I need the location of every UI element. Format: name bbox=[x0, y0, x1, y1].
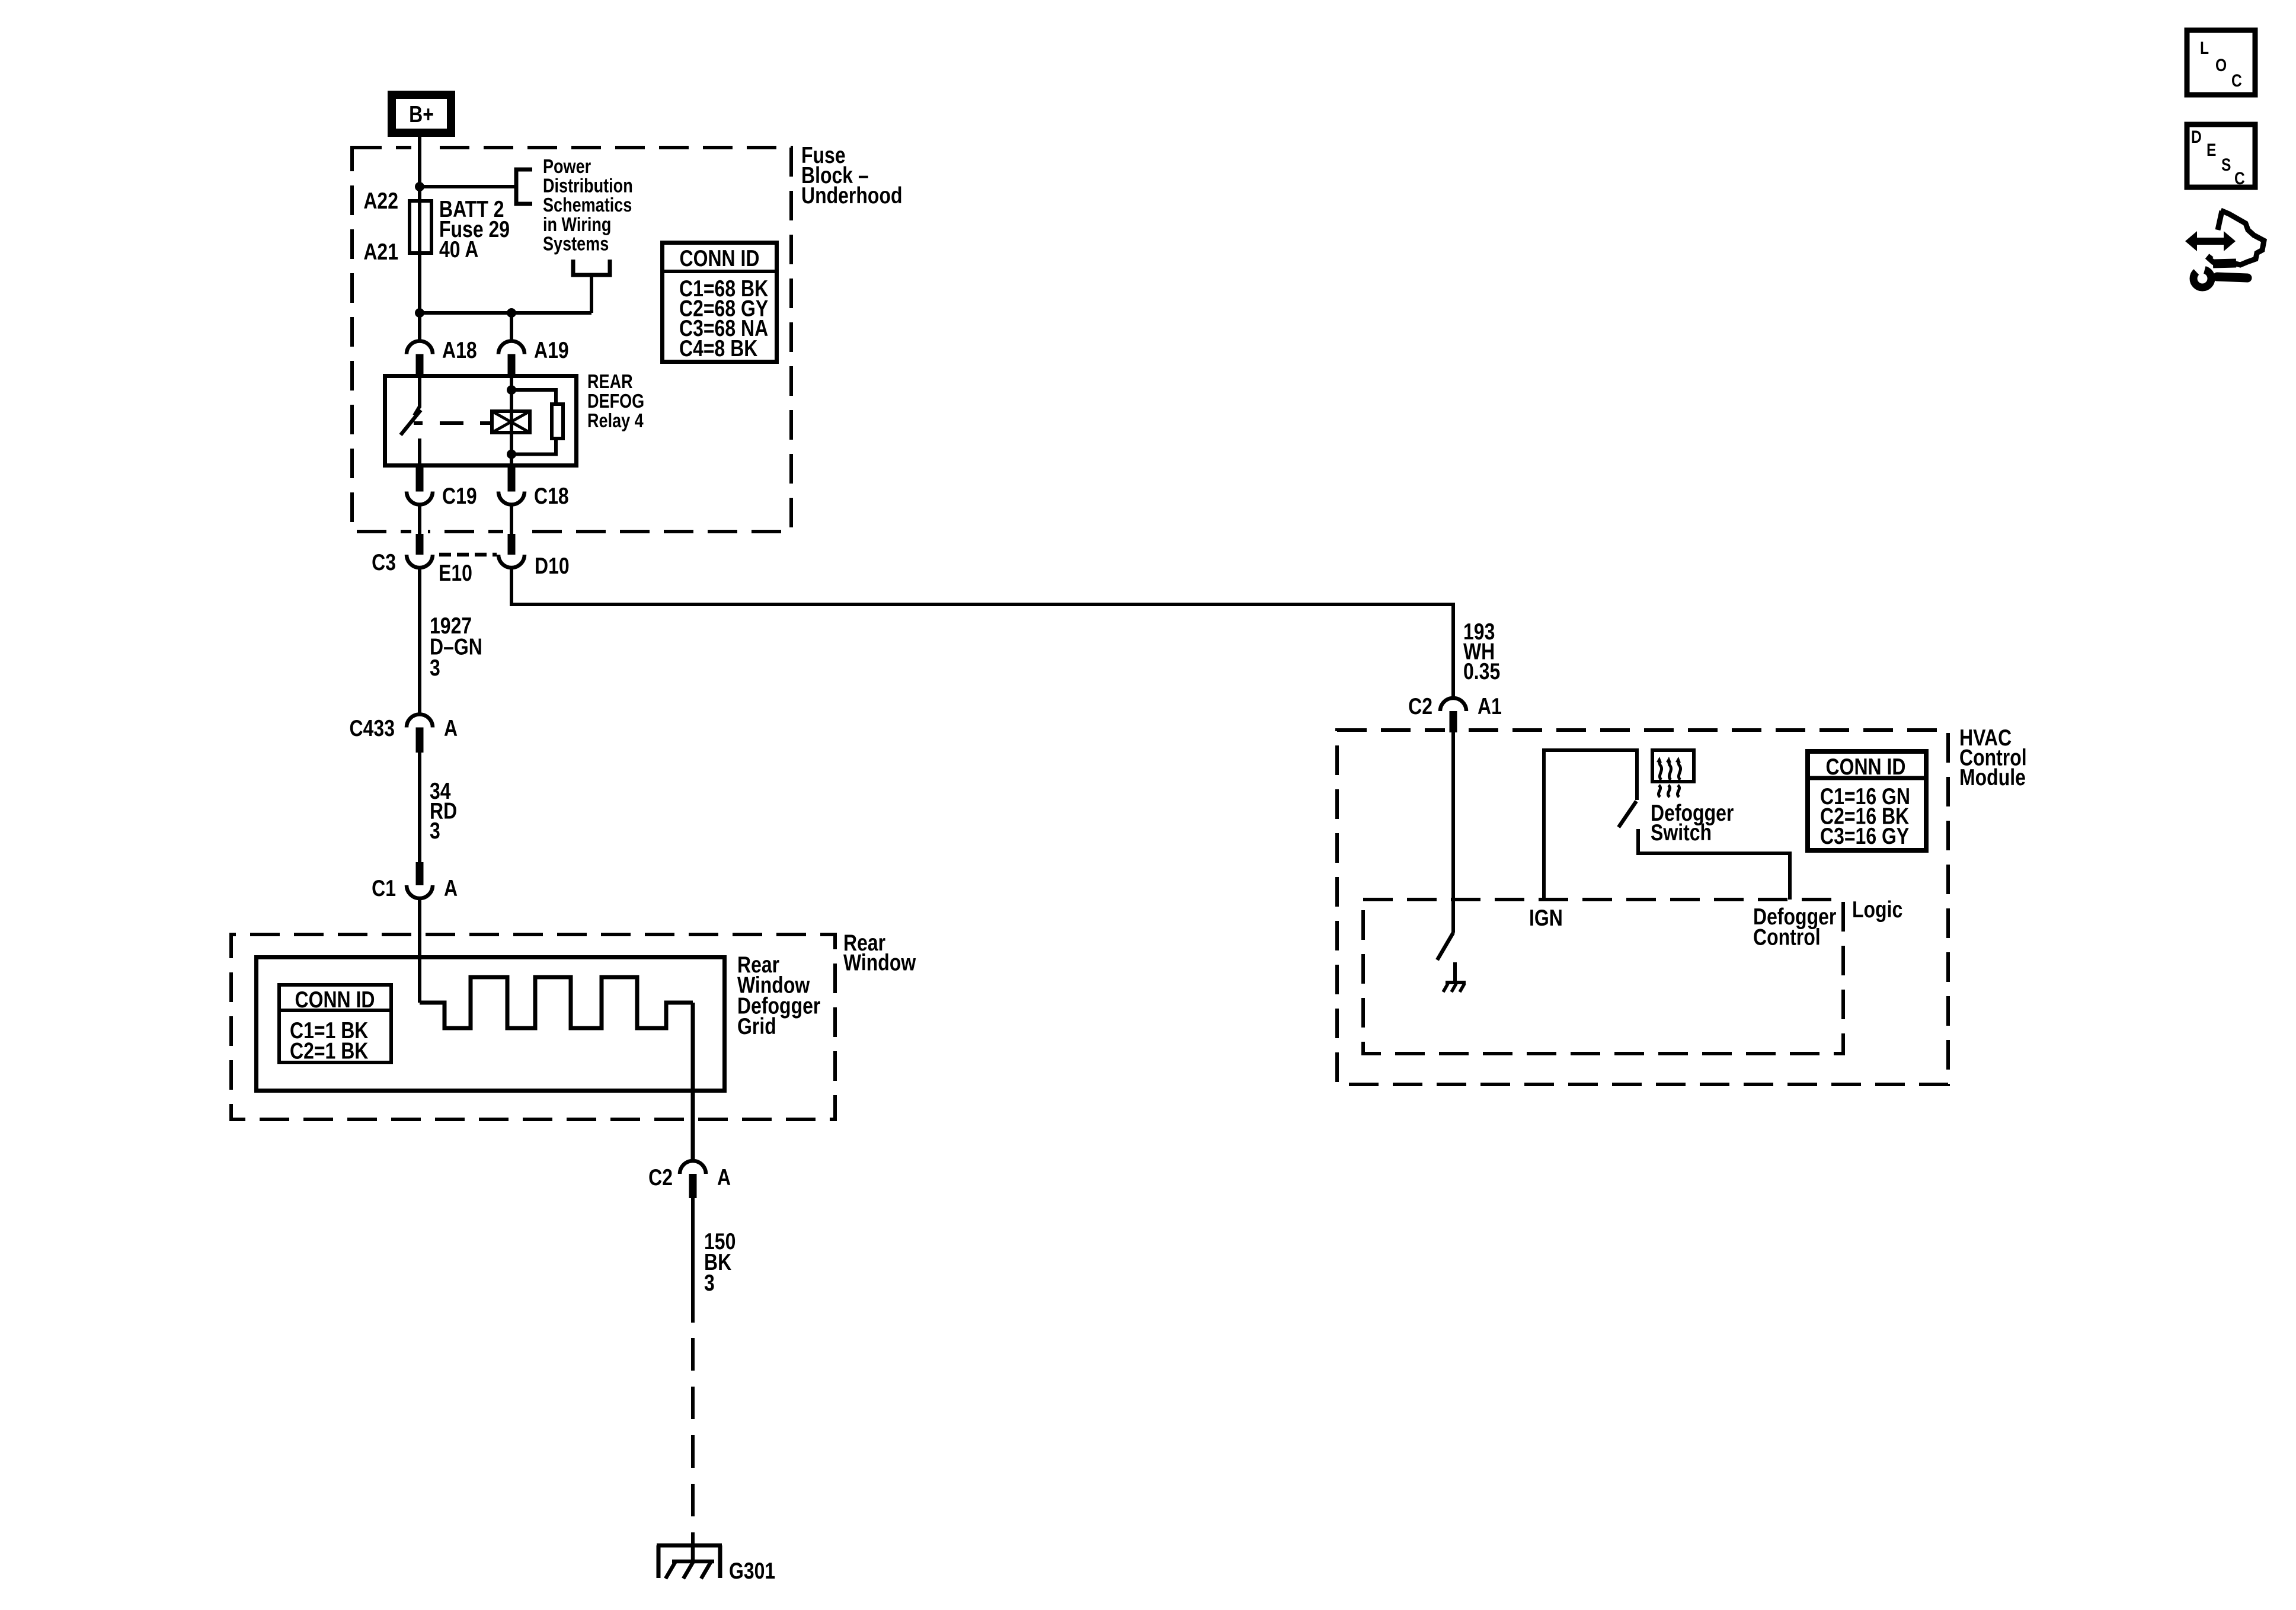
wire D10 to HVAC bbox=[511, 568, 1453, 698]
connector C2 A1 hvac bbox=[1440, 698, 1466, 711]
svg-text:Underhood: Underhood bbox=[801, 183, 903, 209]
wire C1 into rear window bbox=[418, 898, 421, 1003]
defogger grid element bbox=[420, 977, 693, 1028]
hvac ground symbol bbox=[1446, 981, 1466, 984]
fuse block dashed box bbox=[352, 148, 791, 532]
svg-text:Grid: Grid bbox=[737, 1013, 776, 1039]
svg-text:Control: Control bbox=[1753, 924, 1821, 950]
wire C19 to C3 bbox=[418, 505, 421, 536]
node coil bottom bbox=[507, 450, 516, 459]
connector pin C19 bbox=[416, 468, 424, 492]
connector C2 rear window bbox=[680, 1161, 706, 1174]
relay coil bbox=[510, 374, 513, 468]
connector C433 bbox=[407, 715, 433, 728]
relay linkage dashes bbox=[414, 421, 423, 425]
icon wrench bbox=[2217, 277, 2247, 278]
CONN ID table fuse block bbox=[663, 243, 777, 362]
svg-text:Schematics: Schematics bbox=[543, 195, 632, 216]
icon mobility arrow bbox=[2185, 231, 2236, 251]
node junction A19 branch bbox=[507, 308, 516, 318]
svg-text:A21: A21 bbox=[363, 239, 398, 265]
svg-text:S: S bbox=[2221, 155, 2231, 175]
svg-text:A: A bbox=[717, 1164, 731, 1190]
wire C3 down bbox=[418, 568, 421, 714]
svg-text:E10: E10 bbox=[439, 560, 472, 586]
svg-text:C1: C1 bbox=[372, 875, 396, 901]
HVAC control module dashed box bbox=[1337, 730, 1948, 1084]
wire C18 to D10 bbox=[510, 505, 513, 536]
icon LOC box bbox=[2187, 30, 2255, 95]
defogger switch contact and wire bbox=[1638, 829, 1790, 900]
svg-text:B+: B+ bbox=[409, 101, 434, 127]
off-page bracket under Systems bbox=[573, 260, 610, 275]
wire B+ to junction bbox=[418, 137, 421, 187]
svg-text:REAR: REAR bbox=[587, 372, 633, 393]
wire C433 to C1 bbox=[418, 753, 421, 862]
svg-text:A22: A22 bbox=[363, 188, 398, 214]
svg-text:3: 3 bbox=[704, 1270, 715, 1296]
svg-text:0.35: 0.35 bbox=[1463, 658, 1500, 684]
wire grid to C2 bbox=[691, 1003, 695, 1161]
rear window dashed box bbox=[231, 934, 835, 1119]
off-page bracket Power Distribution bbox=[516, 169, 532, 204]
svg-text:A: A bbox=[444, 715, 458, 741]
svg-text:E: E bbox=[2207, 140, 2216, 160]
svg-text:L: L bbox=[2200, 38, 2209, 58]
wire A1 to ground switch bbox=[1451, 732, 1455, 933]
svg-text:40 A: 40 A bbox=[439, 236, 478, 263]
defogger switch blade bbox=[1619, 801, 1636, 827]
svg-text:C4=8 BK: C4=8 BK bbox=[679, 335, 758, 361]
node junction fuse out bbox=[415, 308, 424, 318]
power terminal B+ bbox=[392, 95, 451, 133]
svg-text:CONN ID: CONN ID bbox=[295, 987, 375, 1013]
fuse BATT 2 Fuse 29 40 A bbox=[410, 201, 431, 253]
svg-text:Distribution: Distribution bbox=[543, 175, 633, 197]
svg-text:Power: Power bbox=[543, 156, 591, 178]
svg-text:A1: A1 bbox=[1478, 693, 1502, 719]
connector pin C18 bbox=[508, 468, 516, 492]
svg-text:C2: C2 bbox=[1408, 693, 1432, 719]
connector C3 bbox=[416, 534, 424, 555]
relay REAR DEFOG Relay 4 box bbox=[385, 376, 577, 466]
wire C2 down bbox=[691, 1198, 695, 1323]
svg-text:in Wiring: in Wiring bbox=[543, 214, 611, 235]
svg-text:O: O bbox=[2215, 55, 2227, 75]
svg-text:Logic: Logic bbox=[1852, 897, 1902, 923]
ground G301 bbox=[657, 1544, 722, 1548]
connector pin A19 bbox=[498, 341, 525, 354]
svg-text:DEFOG: DEFOG bbox=[587, 391, 644, 412]
svg-text:A19: A19 bbox=[534, 337, 569, 363]
wire bus to A19 bbox=[420, 311, 591, 315]
wire IGN bbox=[1544, 750, 1637, 900]
svg-text:A18: A18 bbox=[442, 337, 477, 363]
CONN ID table hvac bbox=[1808, 751, 1926, 850]
svg-text:C433: C433 bbox=[350, 715, 395, 741]
svg-text:C19: C19 bbox=[442, 483, 477, 509]
relay resistor bbox=[552, 404, 563, 438]
wire junction to PDS bracket bbox=[420, 185, 516, 188]
svg-text:3: 3 bbox=[430, 655, 440, 681]
svg-text:A: A bbox=[444, 875, 458, 901]
svg-text:C3=16 GY: C3=16 GY bbox=[1820, 823, 1909, 849]
wire to A19 bbox=[510, 313, 513, 341]
svg-text:C2=1 BK: C2=1 BK bbox=[290, 1038, 369, 1064]
svg-text:D10: D10 bbox=[535, 553, 570, 579]
logic dashed box bbox=[1363, 900, 1843, 1054]
connector pin A18 bbox=[407, 341, 433, 354]
node coil top bbox=[507, 385, 516, 395]
icon DESC box bbox=[2187, 124, 2255, 187]
hvac ground switch bbox=[1437, 933, 1453, 960]
svg-text:Relay 4: Relay 4 bbox=[587, 411, 644, 432]
connector D10 bbox=[508, 534, 516, 555]
connector C1 bbox=[416, 862, 424, 885]
svg-text:C18: C18 bbox=[534, 483, 569, 509]
node junction at B+ bbox=[415, 182, 424, 191]
svg-text:CONN ID: CONN ID bbox=[1826, 754, 1906, 780]
svg-text:G301: G301 bbox=[729, 1558, 775, 1584]
svg-text:D: D bbox=[2191, 127, 2202, 147]
svg-text:C2: C2 bbox=[648, 1164, 673, 1190]
svg-text:C3: C3 bbox=[372, 549, 396, 575]
svg-text:Module: Module bbox=[1959, 764, 2026, 790]
in-line connector dashes E10 bbox=[439, 553, 497, 557]
CONN ID table rear window bbox=[279, 985, 391, 1062]
svg-text:3: 3 bbox=[430, 818, 440, 844]
svg-text:IGN: IGN bbox=[1529, 905, 1563, 931]
svg-text:Switch: Switch bbox=[1651, 820, 1712, 846]
defog indicator icon bbox=[1652, 750, 1694, 782]
svg-text:Window: Window bbox=[843, 949, 916, 975]
relay switch bbox=[418, 374, 421, 408]
icon panel outline bbox=[2218, 211, 2222, 230]
svg-text:Systems: Systems bbox=[543, 233, 609, 255]
svg-text:C: C bbox=[2234, 168, 2245, 188]
svg-text:C: C bbox=[2231, 71, 2242, 91]
wire to A18 bbox=[418, 313, 421, 341]
wire through fuse bbox=[418, 187, 421, 313]
wire bracket to bus bbox=[590, 275, 593, 313]
dashed wire to G301 bbox=[691, 1338, 695, 1548]
rear window defogger grid box bbox=[257, 958, 725, 1091]
svg-text:CONN ID: CONN ID bbox=[680, 245, 760, 271]
